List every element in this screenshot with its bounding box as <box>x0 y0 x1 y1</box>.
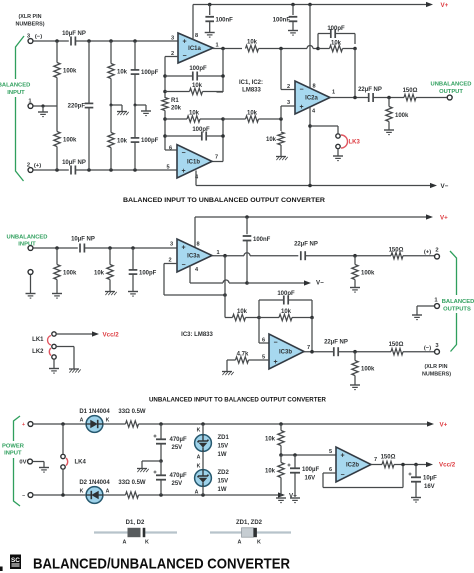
wire output1 to gnd <box>412 306 434 320</box>
resistor 4.7k to IC3b pin5 <box>227 352 269 364</box>
svg-text:1: 1 <box>332 90 335 96</box>
svg-text:K: K <box>257 540 261 546</box>
svg-text:7: 7 <box>374 457 377 463</box>
capacitor 100nF (bypass 2) <box>273 5 298 31</box>
resistor 10k divider lower <box>265 455 284 496</box>
svg-text:OUTPUT: OUTPUT <box>439 89 463 95</box>
svg-text:10µF NP: 10µF NP <box>71 237 95 243</box>
resistor 10k feedback IC1b <box>165 111 223 123</box>
svg-text:470µF: 470µF <box>170 473 187 479</box>
node column IC1b inverting <box>163 113 177 151</box>
svg-text:1W: 1W <box>218 452 227 458</box>
svg-text:(+): (+) <box>424 250 431 256</box>
svg-text:4.7k: 4.7k <box>237 352 249 358</box>
wire cap to 150R <box>373 96 404 100</box>
green bracket balanced input <box>16 36 25 181</box>
wire cap to 150R (-out) <box>338 350 391 354</box>
svg-text:100nF: 100nF <box>216 18 234 24</box>
resistor 10k series (IC1b out to IC2a pin3) <box>223 111 283 123</box>
wire IC3a pin8 riser <box>194 217 196 247</box>
op-amp IC1a <box>178 33 213 63</box>
svg-text:−: − <box>181 150 185 157</box>
svg-text:Vcc/2: Vcc/2 <box>103 332 120 339</box>
svg-text:LK2: LK2 <box>32 349 44 355</box>
svg-text:10k: 10k <box>247 40 258 46</box>
terminal power + <box>22 422 33 428</box>
resistor 100k to ground (output) <box>386 98 409 131</box>
svg-text:100k: 100k <box>361 271 375 277</box>
ground 100k -out <box>350 385 360 390</box>
resistor 10k mid to gnd <box>94 248 113 291</box>
svg-text:10k: 10k <box>117 139 128 145</box>
op-amp IC2b <box>336 447 371 482</box>
wire IC1a pin2 stub <box>165 56 178 58</box>
svg-text:UNBALANCED INPUT TO BALANCED O: UNBALANCED INPUT TO BALANCED OUTPUT CONV… <box>149 397 326 404</box>
svg-text:100pF: 100pF <box>141 70 159 76</box>
svg-text:V−: V− <box>441 183 449 190</box>
svg-text:BALANCED INPUT TO UNBALANCED O: BALANCED INPUT TO UNBALANCED OUTPUT CONV… <box>123 197 325 204</box>
wire - to D2 <box>34 493 86 497</box>
svg-text:K: K <box>106 418 110 424</box>
svg-text:10k: 10k <box>247 111 258 117</box>
svg-text:−: − <box>182 53 186 60</box>
resistor 150R (-out) <box>389 342 435 355</box>
svg-text:LM833: LM833 <box>242 88 261 94</box>
svg-text:(−): (−) <box>424 346 431 352</box>
label IC3 LM833 <box>181 332 213 338</box>
label XLR pin numbers (top-left) <box>15 14 44 28</box>
ground 100k +out <box>350 288 360 293</box>
title BALANCED/UNBALANCED CONVERTER <box>33 556 290 573</box>
svg-text:SC: SC <box>11 557 20 564</box>
wire divider to IC2b pin5 <box>281 453 336 457</box>
svg-text:22µF NP: 22µF NP <box>324 340 348 346</box>
wire IC1b pin4 to V- rail <box>195 171 197 186</box>
svg-text:D1, D2: D1, D2 <box>126 520 145 526</box>
package drawing ZD1 ZD2 <box>210 520 291 546</box>
svg-text:K: K <box>197 428 201 434</box>
svg-text:20k: 20k <box>171 106 182 112</box>
svg-text:10k: 10k <box>266 137 277 143</box>
svg-text:10µF NP: 10µF NP <box>62 160 86 166</box>
label BALANCED OUTPUTS (green) <box>442 299 474 313</box>
svg-text:IC1, IC2:: IC1, IC2: <box>239 80 263 86</box>
op-amp IC2a <box>295 81 330 114</box>
terminal unbalanced input ground <box>26 270 36 299</box>
diode D1 1N4004 <box>80 416 110 433</box>
svg-text:7: 7 <box>307 345 310 351</box>
svg-text:(+): (+) <box>34 163 41 169</box>
svg-text:10µF NP: 10µF NP <box>62 31 86 37</box>
resistor 10k IC2a pin3 to ground <box>266 119 284 156</box>
ground bypass 2 <box>288 31 298 36</box>
ground between 470uF caps <box>137 459 163 472</box>
svg-text:10k: 10k <box>189 111 200 117</box>
wire pin3 to C1 <box>33 39 69 43</box>
terminal unbalanced input <box>28 246 33 251</box>
terminal input pin 2 (+) <box>27 163 41 173</box>
svg-text:INPUT: INPUT <box>18 242 36 248</box>
svg-text:33Ω 0.5W: 33Ω 0.5W <box>118 409 145 415</box>
svg-text:7: 7 <box>215 155 218 161</box>
green bracket power input <box>14 416 21 506</box>
capacitor 100pF (bottom leg) <box>131 105 159 170</box>
wire IC3a output <box>212 253 298 258</box>
svg-text:+: + <box>182 38 186 45</box>
svg-text:25V: 25V <box>172 445 183 451</box>
resistor 10k (bottom leg) <box>108 105 128 170</box>
ground for top leg cap <box>134 104 152 116</box>
capacitor 100nF (bypass 1) <box>205 5 233 33</box>
heading unbalanced to balanced <box>149 397 326 404</box>
wire 0V to ground <box>33 462 49 473</box>
svg-text:IC1b: IC1b <box>187 159 200 165</box>
svg-text:K: K <box>145 540 149 546</box>
pin labels IC1b <box>166 146 218 181</box>
svg-text:6: 6 <box>262 338 265 344</box>
svg-text:+: + <box>181 168 185 175</box>
wire IC2a pin3 up <box>281 106 295 119</box>
svg-text:100k: 100k <box>63 271 77 277</box>
label D1 <box>79 409 110 415</box>
svg-text:100k: 100k <box>63 69 77 75</box>
resistor 100k (pin1 to pin2 node) <box>54 106 77 170</box>
V- arrow (mid section) <box>247 280 324 287</box>
svg-text:IC1a: IC1a <box>188 46 201 52</box>
pin labels IC2a <box>287 84 335 115</box>
svg-text:100pF: 100pF <box>141 138 159 144</box>
label D2 <box>79 480 110 486</box>
svg-text:POWER: POWER <box>2 444 25 450</box>
terminal input pin 1 <box>28 99 33 109</box>
capacitor 100pF (top leg to gnd node) <box>131 41 159 105</box>
terminal output 2 (+) <box>424 248 440 259</box>
V+ rail (mid section) <box>195 214 448 221</box>
links LK1 LK2 <box>32 332 56 359</box>
svg-text:3: 3 <box>287 100 290 106</box>
resistor 100k (+out) to gnd <box>352 256 375 287</box>
wire LK2 to ground <box>57 347 81 373</box>
resistor 150R (+out) <box>389 248 435 259</box>
ground output 100k <box>384 130 394 135</box>
ground divider <box>276 498 286 503</box>
svg-text:INPUT: INPUT <box>4 451 22 457</box>
svg-text:−: − <box>273 339 277 346</box>
capacitor 100pF mid to gnd <box>129 248 157 291</box>
svg-text:UNBALANCED: UNBALANCED <box>7 235 48 241</box>
wire C1 to IC1a pin3 <box>75 39 178 43</box>
svg-text:LK1: LK1 <box>32 337 44 343</box>
wire IC2a pin8 riser <box>309 5 311 88</box>
op-amp IC3a <box>177 239 212 272</box>
svg-text:Vcc/2: Vcc/2 <box>439 461 456 468</box>
label BALANCED INPUT (green) <box>0 83 30 97</box>
label UNBALANCED INPUT (green) <box>7 235 48 248</box>
svg-text:6: 6 <box>169 146 172 152</box>
svg-text:100nF: 100nF <box>253 237 271 243</box>
svg-text:2: 2 <box>287 84 290 90</box>
resistor 100k (pin3 to pin1 node) <box>54 41 77 106</box>
zener ZD1 15V 1W <box>195 424 230 470</box>
svg-text:−: − <box>22 493 25 499</box>
wire feedback left to pin6 <box>259 318 269 344</box>
svg-text:K: K <box>80 489 84 495</box>
ground bypass 1 <box>205 33 215 38</box>
label POWER INPUT (green) <box>2 444 25 457</box>
svg-text:NUMBERS): NUMBERS) <box>15 22 44 28</box>
ground 100pF mid <box>128 292 138 297</box>
svg-text:ZD1: ZD1 <box>218 435 230 441</box>
svg-text:V+: V+ <box>440 215 448 222</box>
svg-text:IC3b: IC3b <box>279 350 292 356</box>
pin labels IC2b <box>329 449 377 473</box>
Vcc/2 arrow (power) <box>426 461 456 468</box>
resistor 10k feedback IC3b <box>259 309 314 321</box>
resistor 100k (-out) to gnd <box>352 352 375 385</box>
svg-text:+: + <box>22 422 25 428</box>
svg-text:V−: V− <box>316 280 324 287</box>
resistor 150R (Vcc/2) <box>381 455 426 468</box>
resistor 10k feedback IC2a <box>318 41 357 52</box>
wire IC1a output <box>213 47 242 51</box>
pin labels IC1a <box>171 33 219 57</box>
svg-text:220pF: 220pF <box>68 104 86 110</box>
capacitor 22uF NP (output) <box>358 87 382 102</box>
svg-text:100k: 100k <box>395 113 409 119</box>
terminal output 3 (-) <box>424 343 440 354</box>
svg-text:−: − <box>181 262 185 269</box>
svg-text:100µF: 100µF <box>302 467 319 473</box>
svg-text:22µF NP: 22µF NP <box>294 242 318 248</box>
svg-text:100k: 100k <box>63 138 77 144</box>
svg-text:LK3: LK3 <box>349 140 361 146</box>
svg-text:+: + <box>181 244 185 251</box>
svg-text:+: + <box>340 452 344 459</box>
svg-text:A: A <box>195 490 199 496</box>
wire IC2b output <box>371 464 382 466</box>
svg-text:K: K <box>197 464 201 470</box>
svg-text:IC2a: IC2a <box>305 96 318 102</box>
svg-text:100pF: 100pF <box>139 271 157 277</box>
svg-text:D2 1N4004: D2 1N4004 <box>79 480 110 486</box>
ground for top leg filter <box>110 104 129 116</box>
resistor 10k (IC3a out to IC3b) <box>225 309 261 321</box>
svg-text:(XLR PIN: (XLR PIN <box>424 364 447 370</box>
svg-text:BALANCED/UNBALANCED CONVERTER: BALANCED/UNBALANCED CONVERTER <box>33 556 290 573</box>
op-amp IC1b <box>177 145 212 178</box>
svg-text:1: 1 <box>215 43 218 49</box>
ground 10k mid <box>105 292 117 296</box>
wire IC1a pin8 to V+ rail <box>192 5 194 41</box>
svg-text:10k: 10k <box>117 70 128 76</box>
wire to LK3 <box>310 126 338 133</box>
capacitor 22uF NP (mid +out) <box>294 242 318 261</box>
capacitor 100pF feedback IC1a <box>165 66 223 81</box>
svg-text:BALANCED: BALANCED <box>442 299 474 305</box>
svg-text:10µF: 10µF <box>423 476 437 482</box>
wire IC2a output <box>330 96 369 100</box>
svg-text:IC3: LM833: IC3: LM833 <box>181 332 213 338</box>
svg-text:25V: 25V <box>172 481 183 487</box>
wire x=225 column down <box>224 256 226 318</box>
svg-text:1W: 1W <box>218 487 227 493</box>
svg-text:2: 2 <box>168 258 171 264</box>
wire IC3b output <box>304 350 334 354</box>
capacitor 100pF feedback IC1b <box>165 127 223 141</box>
svg-text:A: A <box>106 489 110 495</box>
wire + to D1 <box>34 422 86 426</box>
wire IC1a feedback right side <box>217 49 225 93</box>
terminal input pin 3 (-) <box>27 34 42 44</box>
wire IC2a inverting drop <box>281 49 295 90</box>
svg-text:33Ω 0.5W: 33Ω 0.5W <box>118 480 145 486</box>
capacitor 100nF (mid bypass) <box>243 217 271 283</box>
svg-text:−: − <box>299 86 303 93</box>
resistor 10k feedback IC1a <box>165 83 223 95</box>
svg-text:D1 1N4004: D1 1N4004 <box>79 409 110 415</box>
svg-text:100nF: 100nF <box>273 18 291 24</box>
pin labels IC3a <box>168 242 219 274</box>
svg-text:R1: R1 <box>171 98 179 104</box>
V- arrow (power) <box>278 492 297 499</box>
svg-text:16V: 16V <box>305 476 316 482</box>
svg-text:A: A <box>197 455 201 461</box>
resistor 33R 0.5W (top) <box>103 409 427 427</box>
svg-text:IC2b: IC2b <box>346 463 359 469</box>
svg-text:INPUT: INPUT <box>7 90 25 96</box>
svg-text:8: 8 <box>195 33 198 39</box>
svg-text:8: 8 <box>312 84 315 90</box>
terminal power 0V <box>19 459 32 465</box>
svg-text:A: A <box>238 540 242 546</box>
pin labels IC3b <box>262 338 310 361</box>
label UNBALANCED OUTPUT (green) <box>431 82 472 95</box>
svg-text:5: 5 <box>329 449 332 455</box>
V+ arrow (power) <box>427 421 448 428</box>
terminal power - <box>22 493 33 499</box>
heading balanced to unbalanced <box>123 197 325 204</box>
package drawing D1 D2 <box>94 520 177 546</box>
label XLR pin numbers (mid-right) <box>422 364 451 378</box>
capacitor 10uF NP (top input) <box>62 31 86 46</box>
svg-text:5: 5 <box>166 165 169 171</box>
svg-text:100pF: 100pF <box>189 66 207 72</box>
capacitor 100uF 16V <box>288 455 320 497</box>
resistor 100k input to gnd <box>54 248 77 293</box>
resistor 10k divider upper <box>265 424 284 457</box>
capacitor 220pF across inputs <box>68 41 94 170</box>
svg-text:NUMBERS): NUMBERS) <box>422 372 451 378</box>
terminal unbalanced output <box>447 95 452 100</box>
ground IC2a pin3 resistor <box>276 157 288 161</box>
svg-text:3: 3 <box>170 242 173 248</box>
resistor 10k (top leg to gnd node) <box>108 41 128 105</box>
zener ZD2 15V 1W <box>195 464 230 496</box>
op-amp IC3b <box>269 334 304 369</box>
svg-text:3: 3 <box>171 36 174 42</box>
svg-text:(−): (−) <box>35 34 42 40</box>
capacitor 10uF NP (mid) <box>71 237 95 253</box>
resistor 33R 0.5W (bottom) <box>103 480 278 498</box>
resistor 10k series (IC1a out to IC2a) <box>246 40 308 52</box>
svg-text:10k: 10k <box>265 437 276 443</box>
label IC1 IC2 LM833 <box>239 80 263 94</box>
ground 4.7k <box>222 360 234 375</box>
diode D2 1N4004 <box>80 487 110 504</box>
svg-text:OUTPUTS: OUTPUTS <box>443 307 471 313</box>
wire hop over IC2a pin8 riser <box>307 46 313 49</box>
link LK4 <box>61 424 87 495</box>
resistor R1 20k <box>162 98 182 113</box>
svg-text:V+: V+ <box>441 2 449 9</box>
svg-text:6: 6 <box>329 467 332 473</box>
svg-text:10k: 10k <box>281 309 292 315</box>
ground 10uF <box>411 498 421 503</box>
svg-text:100k: 100k <box>361 367 375 373</box>
svg-text:ZD2: ZD2 <box>218 470 230 476</box>
svg-text:LK4: LK4 <box>75 460 87 466</box>
wire IC1b output to 10k chain <box>212 117 225 161</box>
ground 100k mid <box>52 294 62 299</box>
svg-text:22µF NP: 22µF NP <box>358 87 382 93</box>
svg-text:A: A <box>123 540 127 546</box>
svg-text:15V: 15V <box>218 444 229 450</box>
svg-text:15V: 15V <box>218 479 229 485</box>
capacitor 10uF NP (bottom input) <box>62 160 86 175</box>
capacitor 10uF 16V <box>409 465 438 498</box>
wire cap to IC3a pin3 <box>84 246 177 250</box>
capacitor 470uF 25V (lower) <box>154 461 187 495</box>
Vcc/2 arrow (mid) <box>57 331 120 338</box>
resistor 150R output <box>403 88 447 101</box>
wire LK bottom to ground <box>49 359 59 373</box>
capacitor 100pF feedback IC2a <box>316 26 355 50</box>
svg-text:ZD1, ZD2: ZD1, ZD2 <box>236 520 263 526</box>
ground LK3 <box>333 149 343 161</box>
svg-text:16V: 16V <box>424 484 435 490</box>
ground at input pin 1 <box>38 106 48 117</box>
green bracket balanced outputs <box>450 251 457 352</box>
ground 100uF <box>290 498 300 503</box>
svg-text:10k: 10k <box>331 41 342 47</box>
wire pin2 to C2 <box>33 168 69 172</box>
capacitor 100pF feedback IC3b <box>259 291 312 318</box>
svg-text:+: + <box>299 104 303 111</box>
svg-text:UNBALANCED: UNBALANCED <box>431 82 472 88</box>
svg-text:2: 2 <box>435 248 438 254</box>
svg-text:10k: 10k <box>192 83 203 89</box>
wire input to cap <box>33 246 78 250</box>
svg-text:8: 8 <box>196 242 199 248</box>
wire C2 to IC1b pin5 <box>75 168 177 172</box>
svg-text:100pF: 100pF <box>277 291 295 297</box>
svg-text:+: + <box>273 359 277 366</box>
svg-text:10k: 10k <box>265 469 276 475</box>
svg-text:V+: V+ <box>440 422 448 429</box>
svg-text:10k: 10k <box>94 271 105 277</box>
capacitor 22uF NP (mid -out) <box>324 340 348 357</box>
wire feedback right to output <box>311 318 313 352</box>
svg-text:BALANCED: BALANCED <box>0 83 30 89</box>
svg-text:(XLR PIN: (XLR PIN <box>18 14 41 20</box>
wire to IC2a feedback node <box>313 48 318 50</box>
V- rail (top section) <box>196 183 449 190</box>
wire terminal1 to node <box>33 104 57 107</box>
capacitor 470uF 25V (upper) <box>154 424 187 461</box>
node column IC1a inverting (x=165) <box>163 57 167 99</box>
svg-text:470µF: 470µF <box>170 437 187 443</box>
wire cap to 150R (+out) <box>305 254 391 258</box>
